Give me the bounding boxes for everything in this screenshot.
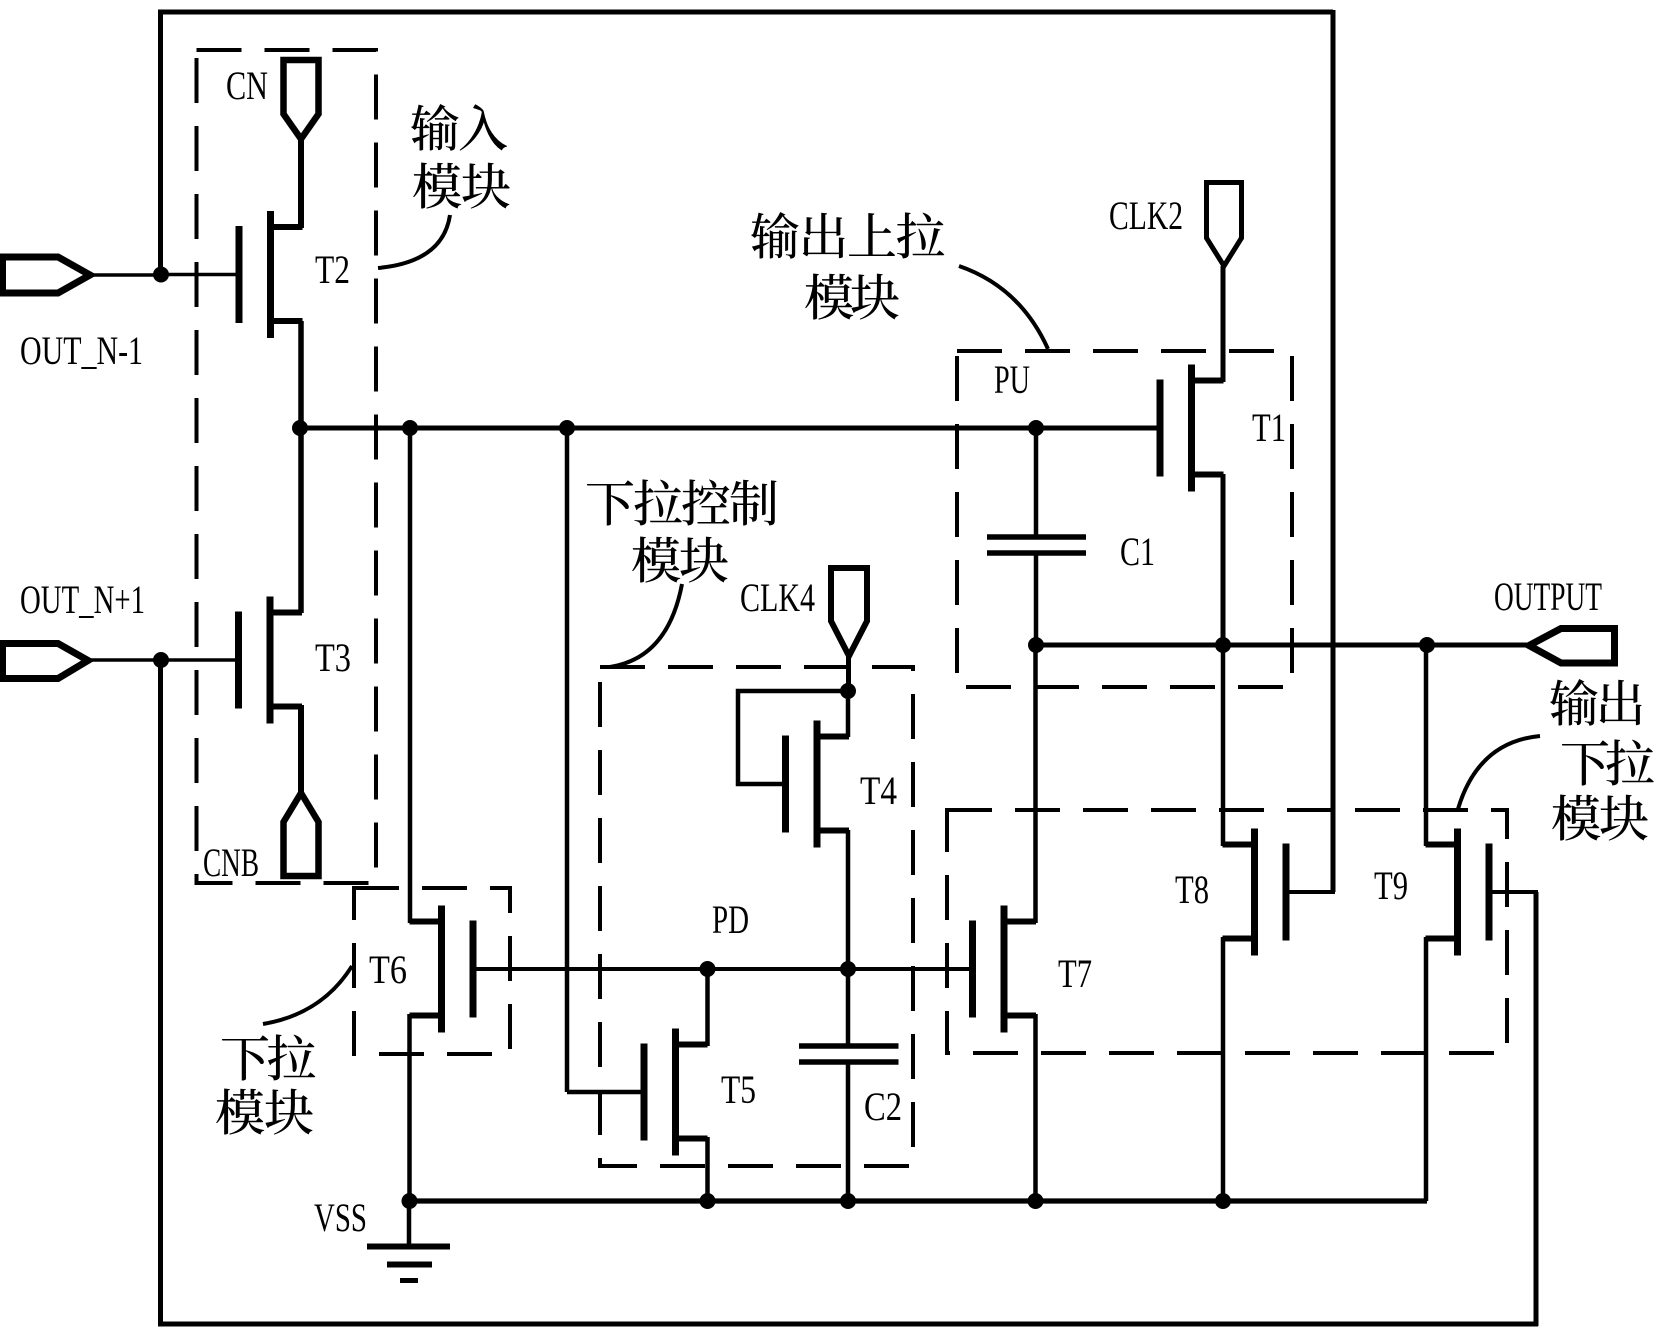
wire: T4 gate loop to drain node [738, 691, 848, 784]
transistor T6 [410, 906, 474, 1033]
svg-text:CLK4: CLK4 [740, 575, 815, 620]
svg-text:T5: T5 [721, 1067, 756, 1112]
wire: PD line to C2 top [846, 969, 851, 1046]
wire: PU line to T6 drain vertical [408, 428, 413, 923]
svg-text:T8: T8 [1175, 867, 1209, 912]
module box: pull-down module T6 (dashed) [354, 888, 510, 1054]
wire: T8 source to VSS [1221, 937, 1226, 1201]
wire: T4 source to PD line [846, 830, 851, 969]
wire: C2 bottom to VSS [846, 1062, 851, 1201]
transistor T1 [1160, 365, 1224, 492]
wire: PU node to C1 top [1034, 428, 1039, 537]
capacitor C2 [799, 1046, 899, 1062]
transistor T3 [239, 597, 303, 724]
svg-text:OUTPUT: OUTPUT [1494, 574, 1602, 619]
wire: right lower frame (bottom frame up to T9 gate) [1534, 892, 1539, 1326]
annotation: pull-down control module text [587, 479, 777, 582]
terminal OUTPUT (output arrow) [1529, 629, 1615, 664]
svg-text:OUT_N-1: OUT_N-1 [20, 328, 143, 373]
leader curve: output pull-down module [1458, 736, 1540, 809]
wire: T9 source to VSS end [1424, 937, 1429, 1201]
wire: PU to T5 gate vertical [565, 428, 570, 1092]
wire: T5 gate horizontal [567, 1090, 644, 1095]
svg-text:T2: T2 [315, 247, 350, 292]
transistor T5 [644, 1029, 708, 1156]
svg-text:C1: C1 [1120, 529, 1155, 574]
terminal OUT_N+1 (input arrow) [3, 644, 89, 679]
transistor T2 [239, 211, 303, 338]
module box: output pull-down module (dashed) [947, 810, 1507, 1053]
wire: VSS rail [409, 1198, 1427, 1203]
svg-text:CLK2: CLK2 [1109, 193, 1183, 238]
transistor T9 [1426, 829, 1490, 956]
annotation: pull-down module text [216, 1034, 315, 1134]
node: OUT_N+1 junction [153, 652, 169, 668]
wire: left frame upper (OUT_N-1 to top frame) [158, 10, 163, 274]
node PU junction dots [292, 420, 1044, 436]
terminal CN (pentagon) [284, 60, 319, 139]
wire: T4 drain to node [846, 691, 851, 737]
terminal CLK2 (pentagon) [1207, 183, 1242, 267]
svg-text:T3: T3 [315, 635, 351, 680]
wire: OUTPUT line to T9 drain [1424, 645, 1429, 846]
wire: PD line to T5 drain [705, 969, 710, 1046]
svg-text:T6: T6 [369, 947, 407, 992]
transistor T8 [1223, 829, 1287, 956]
wire: PD line (T6 gate to T7 gate) [473, 967, 973, 971]
svg-text:VSS: VSS [314, 1195, 367, 1240]
svg-text:T1: T1 [1252, 405, 1286, 450]
wire: OUTPUT horizontal line [1036, 643, 1530, 648]
annotation: output pull-down module text [1550, 679, 1654, 841]
node PD junction dots [700, 961, 857, 977]
wire: T1 source to OUTPUT line [1221, 474, 1226, 647]
terminal CLK4 (pentagon) [831, 568, 867, 656]
terminal CNB (pentagon) [284, 793, 319, 876]
svg-text:C2: C2 [864, 1084, 902, 1129]
wire: OUTPUT line to T8 drain [1221, 645, 1226, 846]
annotation: input module text (shu ru / mo kuai) [411, 104, 510, 209]
wire: T2 source / T3 drain vertical [298, 321, 304, 613]
node: OUT_N-1 junction [153, 267, 169, 283]
module box: output pull-up module (dashed) [957, 351, 1292, 687]
wire: OUT_N+1 node to T3 gate [161, 658, 239, 662]
transistor T4 [786, 721, 850, 848]
svg-text:CNB: CNB [203, 840, 259, 885]
leader curve: output pull-up module [959, 266, 1048, 349]
wire: OUT_N-1 arrow to node [90, 273, 161, 277]
wire: OUT_N+1 arrow to node [88, 658, 161, 662]
module box: pull-down control module (dashed) [600, 667, 913, 1166]
svg-text:T4: T4 [860, 768, 897, 813]
wire: left frame lower (OUT_N+1 down to bottom frame) [158, 660, 163, 1324]
node: CLK4 / T4 drain junction [840, 683, 856, 699]
leader curve: pull-down module [263, 966, 352, 1024]
wire: OUTPUT line to T7 drain [1033, 645, 1038, 923]
node: OUTPUT junction dots [1028, 637, 1435, 653]
svg-text:PU: PU [994, 357, 1030, 402]
svg-text:T7: T7 [1058, 951, 1092, 996]
wire: CN to T2 drain [298, 139, 304, 228]
wire: T3 source to CNB [298, 705, 304, 793]
svg-text:OUT_N+1: OUT_N+1 [20, 577, 145, 622]
wire: bottom frame (OUT_N+1 net) [158, 1322, 1538, 1327]
wire: T6 source to VSS [407, 1014, 412, 1201]
wire: OUT_N-1 node to T2 gate [161, 273, 239, 277]
wire: T9 gate jog to right lower frame [1489, 890, 1538, 894]
wire: CLK4 to T4 node [846, 656, 851, 692]
wire: T8 gate to right frame jog [1286, 890, 1335, 894]
wire: T7 source to VSS [1033, 1014, 1038, 1201]
ground symbol [367, 1201, 450, 1281]
wire: top frame (OUT_N-1 net) [158, 10, 1333, 15]
annotation: output pull-up module text [751, 212, 944, 320]
svg-text:CN: CN [226, 63, 268, 108]
module box: input module (dashed) [197, 50, 377, 883]
wire: node PU horizontal line [300, 426, 1160, 431]
svg-text:T9: T9 [1374, 863, 1408, 908]
leader curve: pull-down control module [610, 584, 682, 667]
transistor T7 [973, 906, 1037, 1033]
capacitor C1 [987, 537, 1086, 553]
terminal OUT_N-1 (input arrow) [3, 257, 91, 293]
wire: right frame (top frame down to T8 gate) [1331, 10, 1336, 892]
leader curve: input module [378, 215, 450, 268]
wire: T5 source to VSS [705, 1137, 710, 1201]
node: VSS junction dots [402, 1193, 1232, 1209]
svg-text:PD: PD [712, 897, 749, 942]
wire: C1 bottom to OUTPUT line [1034, 553, 1039, 647]
wire: CLK2 to T1 drain [1221, 266, 1226, 382]
